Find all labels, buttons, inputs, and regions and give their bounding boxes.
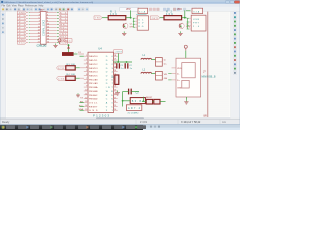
IC U4 right pin 3 bbox=[114, 63, 118, 65]
svg-text:VPP: VPP bbox=[126, 9, 131, 11]
IC U4 right pin 14 bbox=[114, 105, 118, 107]
svg-text:MINIUSB_B: MINIUSB_B bbox=[202, 76, 216, 79]
svg-text:X2 20MHz: X2 20MHz bbox=[128, 113, 139, 115]
svg-text:14: 14 bbox=[114, 109, 116, 111]
P1 right global label 3 bbox=[59, 17, 68, 20]
U1 left pin bbox=[133, 23, 135, 25]
svg-text:15: 15 bbox=[85, 109, 87, 111]
P1 left pin row 2 wire and pin bbox=[27, 15, 29, 17]
wire label to R1 bbox=[102, 17, 108, 19]
svg-text:VCC: VCC bbox=[19, 42, 26, 44]
svg-text:IN1: IN1 bbox=[96, 18, 102, 20]
svg-text:USB: USB bbox=[193, 19, 200, 21]
wire OUT1 to R2 bbox=[160, 17, 164, 19]
svg-text:11: 11 bbox=[85, 93, 87, 95]
resistor R3 bbox=[66, 66, 75, 70]
P1 left pin row 4 wire and pin bbox=[27, 21, 29, 23]
P1 left pin row 5 wire and pin bbox=[27, 24, 29, 26]
IC U4 right pin 9 bbox=[114, 86, 118, 88]
svg-text:GN: GN bbox=[164, 78, 168, 80]
P1 left pin row 9 wire and pin bbox=[27, 36, 29, 38]
IC U4 right pin 12 bbox=[114, 98, 118, 100]
svg-text:PB2/AA: PB2/AA bbox=[89, 86, 98, 89]
svg-text:16: 16 bbox=[114, 101, 116, 103]
svg-text:28: 28 bbox=[114, 55, 116, 57]
svg-text:10K: 10K bbox=[110, 12, 117, 16]
transistor Q1 bbox=[123, 23, 128, 28]
svg-text:SDA: SDA bbox=[79, 108, 84, 111]
svg-text:R3 10K: R3 10K bbox=[67, 64, 76, 66]
svg-text:mm: mm bbox=[222, 121, 226, 124]
svg-text:R4 10K: R4 10K bbox=[67, 74, 76, 76]
crystal X3 box bbox=[130, 98, 145, 104]
svg-text:P12303: P12303 bbox=[93, 113, 109, 117]
svg-text:VDD: VDD bbox=[177, 9, 182, 11]
svg-text:File Edit View Place Prefe: File Edit View Place Preferences Help bbox=[2, 4, 45, 7]
svg-text:OSC1: OSC1 bbox=[89, 103, 98, 105]
resistor R2 bbox=[164, 16, 182, 20]
P1 right pin row 7 wire and pin bbox=[46, 30, 57, 32]
P1 right pin row 6 wire and pin bbox=[46, 27, 57, 29]
IC U4 right pin 7 bbox=[114, 78, 118, 80]
svg-text:24: 24 bbox=[114, 70, 116, 72]
wire R4 to IC bbox=[75, 77, 80, 79]
P1 left pin row 11 wire and pin bbox=[27, 42, 29, 44]
svg-text:+3V3: +3V3 bbox=[115, 52, 123, 54]
U2 left pin bbox=[187, 28, 190, 30]
svg-text:PB0/A8: PB0/A8 bbox=[89, 78, 98, 81]
P1 left global label 11 bbox=[17, 41, 26, 44]
svg-text:NPN: NPN bbox=[186, 27, 191, 29]
sheet border line bbox=[207, 12, 209, 117]
small box X2 bbox=[192, 8, 203, 13]
svg-text:X1A: X1A bbox=[139, 10, 146, 13]
wire into crystal bbox=[123, 100, 131, 102]
P1 right global label 1 bbox=[59, 11, 68, 14]
global label VCC bbox=[64, 39, 73, 43]
ground below USB bbox=[185, 100, 187, 102]
svg-text:VDD: VDD bbox=[177, 68, 182, 70]
power label +3V3 box bbox=[114, 50, 122, 54]
global label IN1 bbox=[94, 16, 102, 20]
resistor R7 bbox=[154, 99, 160, 104]
ESD array block A bbox=[156, 58, 163, 67]
P1 right pin row 2 wire and pin bbox=[46, 15, 57, 17]
svg-text:PA0/D0: PA0/D0 bbox=[89, 55, 98, 58]
junction node1 bbox=[130, 17, 132, 19]
P1 right global label 6 bbox=[59, 26, 68, 29]
IC U4 left pin 14 bbox=[84, 105, 88, 107]
USB connector J2 outer body bbox=[176, 58, 201, 97]
svg-text:D-: D- bbox=[164, 59, 167, 61]
ESD array block B bbox=[156, 71, 163, 80]
P1 left global label 9 bbox=[17, 35, 26, 38]
svg-text:.1u: .1u bbox=[129, 68, 132, 70]
USB inner shape 2 bbox=[182, 80, 189, 88]
svg-text:3: 3 bbox=[86, 63, 87, 65]
P1 left pin row 10 wire and pin bbox=[27, 39, 29, 41]
wire node1 up bbox=[130, 10, 132, 17]
global label left B bbox=[57, 76, 66, 80]
USB inner shape 1 bbox=[182, 63, 195, 78]
vertical wire right of IC bbox=[122, 92, 124, 107]
wire R1node down to Q1 bbox=[121, 18, 123, 26]
P1 left global label 1 bbox=[17, 11, 26, 14]
IC U4 right pin 5 bbox=[114, 71, 118, 73]
svg-text:7: 7 bbox=[86, 78, 87, 80]
power symbol PWR1 bbox=[58, 39, 61, 42]
P1 right pin row 11 wire and pin bbox=[46, 42, 57, 44]
IC U4 left pin 3 bbox=[84, 63, 88, 65]
svg-text:2: 2 bbox=[86, 59, 87, 61]
svg-text:PB4/AC: PB4/AC bbox=[89, 94, 98, 97]
power arrow symbol bbox=[67, 46, 70, 49]
svg-text:17: 17 bbox=[114, 97, 116, 99]
P1 left pin row 8 wire and pin bbox=[27, 33, 29, 35]
junction at Q1 base bbox=[124, 26, 125, 27]
capacitor C2 bbox=[124, 63, 126, 68]
wires R6 R7 bbox=[142, 101, 146, 103]
small box JP1 bbox=[138, 8, 148, 13]
component box U2 bbox=[191, 15, 206, 31]
IC U4 left pin 4 bbox=[84, 67, 88, 69]
IC U4 body bbox=[88, 52, 114, 112]
svg-text:U1: U1 bbox=[138, 19, 144, 21]
svg-text:PB5/AD: PB5/AD bbox=[89, 98, 98, 101]
IC U4 left pin 8 bbox=[84, 82, 88, 84]
resistor R6 bbox=[146, 99, 152, 104]
P1 right pin row 1 wire and pin bbox=[46, 12, 57, 14]
svg-text:EESchema C:\kicad\share\demos: EESchema C:\kicad\share\demos\interf_u\i… bbox=[5, 1, 94, 4]
svg-text:PB3/AB: PB3/AB bbox=[89, 90, 98, 93]
P1 left global label 5 bbox=[17, 23, 26, 26]
svg-text:27: 27 bbox=[114, 59, 116, 61]
svg-text:GND: GND bbox=[177, 88, 182, 90]
IC U4 right pin 8 bbox=[114, 82, 118, 84]
P1 left pin row 1 wire and pin bbox=[27, 12, 29, 14]
svg-text:CONN_13X2: CONN_13X2 bbox=[37, 45, 48, 48]
svg-text:18: 18 bbox=[114, 93, 116, 95]
capacitor C3 bbox=[128, 89, 130, 95]
IC U4 left pin 5 bbox=[84, 71, 88, 73]
IC U4 right pin 11 bbox=[114, 94, 118, 96]
svg-text:14: 14 bbox=[85, 105, 87, 107]
IC U4 right pin 10 bbox=[114, 90, 118, 92]
P1 right pin row 10 wire and pin bbox=[46, 39, 57, 41]
svg-text:1: 1 bbox=[86, 55, 87, 57]
svg-text:3V: 3V bbox=[138, 23, 144, 25]
svg-text:PA5/D5: PA5/D5 bbox=[89, 75, 98, 78]
P1 left global label 3 bbox=[17, 17, 26, 20]
U1 left pin bbox=[133, 20, 135, 22]
svg-text:X 104,14 Y 58,42: X 104,14 Y 58,42 bbox=[181, 121, 201, 124]
P1 left pin row 3 wire and pin bbox=[27, 18, 29, 20]
IC U4 right pin 15 bbox=[114, 109, 118, 111]
svg-text:PA2/D2: PA2/D2 bbox=[89, 63, 98, 66]
IC U4 right pin 6 bbox=[114, 75, 118, 77]
svg-text:PB1/A9: PB1/A9 bbox=[89, 82, 98, 85]
U2 vertical wire bbox=[186, 18, 188, 29]
resistor R4 bbox=[66, 76, 75, 80]
svg-text:9: 9 bbox=[86, 86, 87, 88]
svg-text:CTS: CTS bbox=[58, 78, 65, 80]
P1 right global label 8 bbox=[59, 32, 68, 35]
P1 right global label 2 bbox=[59, 14, 68, 17]
U2 left pin bbox=[187, 17, 190, 19]
P1 left pin row 7 wire and pin bbox=[27, 30, 29, 32]
P1 right global label 7 bbox=[59, 29, 68, 32]
svg-text:OUT1: OUT1 bbox=[152, 18, 159, 20]
svg-text:15: 15 bbox=[114, 105, 116, 107]
svg-text:13: 13 bbox=[85, 101, 87, 103]
P1 right pin row 5 wire and pin bbox=[46, 24, 57, 26]
svg-text:X2A: X2A bbox=[193, 10, 200, 13]
global label left A bbox=[57, 66, 66, 70]
fuse F1 block bbox=[62, 52, 73, 55]
P1 left global label 8 bbox=[17, 32, 26, 35]
U2 left pin bbox=[187, 21, 190, 23]
P1 right global label 5 bbox=[59, 23, 68, 26]
IC U4 left pin 15 bbox=[84, 109, 88, 111]
wire node2 up bbox=[184, 10, 186, 17]
U2 left pin bbox=[187, 25, 190, 27]
IC U4 left pin 6 bbox=[84, 75, 88, 77]
svg-text:U4: U4 bbox=[98, 46, 102, 50]
P1 right pin row 8 wire and pin bbox=[46, 33, 57, 35]
resistor R5 vertical bbox=[115, 75, 119, 84]
svg-text:26: 26 bbox=[114, 63, 116, 65]
teal wire right bbox=[136, 13, 147, 15]
svg-text:PA1/D1: PA1/D1 bbox=[89, 59, 98, 62]
P1 left global label 10 bbox=[17, 38, 26, 41]
P1 left global label 4 bbox=[17, 20, 26, 23]
P1 right global label 4 bbox=[59, 20, 68, 23]
ground below Q2 bbox=[180, 31, 182, 33]
wire cap tops bbox=[114, 61, 133, 63]
svg-text:6: 6 bbox=[86, 74, 87, 76]
USB left pin stubs bbox=[172, 67, 177, 69]
P1 right pin row 3 wire and pin bbox=[46, 18, 57, 20]
svg-text:5: 5 bbox=[86, 70, 87, 72]
IC U4 left pin 10 bbox=[84, 90, 88, 92]
ground below Q1 bbox=[123, 31, 125, 33]
svg-text:12: 12 bbox=[85, 97, 87, 99]
svg-text:10: 10 bbox=[85, 90, 87, 92]
IC U4 left pin 12 bbox=[84, 98, 88, 100]
svg-text:20: 20 bbox=[114, 86, 116, 88]
wire R3 to IC bbox=[75, 67, 80, 69]
global label OUT1 bbox=[150, 16, 159, 20]
svg-text:.1u: .1u bbox=[121, 68, 124, 70]
wire vcc vertical bbox=[68, 44, 70, 52]
P1 left global label 6 bbox=[17, 26, 26, 29]
wire from fuse to IC bbox=[73, 53, 77, 55]
ground below R5 bbox=[117, 91, 119, 93]
box under crystal bbox=[126, 105, 141, 111]
IC U4 left pin 13 bbox=[84, 102, 88, 104]
gnd below connector bbox=[55, 44, 57, 46]
P1 right pin row 4 wire and pin bbox=[46, 21, 57, 23]
IC U4 left pin 7 bbox=[84, 78, 88, 80]
P1 right pin row 9 wire and pin bbox=[46, 36, 57, 38]
junction node2 bbox=[184, 17, 186, 19]
IC U4 left pin 11 bbox=[84, 94, 88, 96]
svg-text:PA4/D4: PA4/D4 bbox=[89, 71, 98, 74]
svg-text:PHY: PHY bbox=[193, 23, 200, 25]
power symbol above USB bbox=[184, 45, 187, 48]
svg-text:R6 R7: R6 R7 bbox=[146, 97, 153, 99]
svg-text:8: 8 bbox=[86, 82, 87, 84]
U1 left pin bbox=[133, 26, 135, 28]
U1 vertical wire bbox=[132, 18, 134, 27]
svg-text:PA3/D3: PA3/D3 bbox=[89, 67, 98, 70]
IC U4 right pin 2 bbox=[114, 59, 118, 61]
svg-text:CONN_13X2: CONN_13X2 bbox=[43, 19, 46, 36]
IC U4 left pin 9 bbox=[84, 86, 88, 88]
transistor Q2 bbox=[179, 23, 184, 28]
IC U4 right pin 4 bbox=[114, 67, 118, 69]
svg-text:GND: GND bbox=[89, 110, 98, 112]
component box U1 bbox=[137, 16, 148, 30]
IC U4 right pin 13 bbox=[114, 102, 118, 104]
svg-text:25: 25 bbox=[114, 66, 116, 68]
svg-text:Z 3,81: Z 3,81 bbox=[140, 121, 148, 124]
P1 right global label 9 bbox=[59, 35, 68, 38]
svg-text:Ready: Ready bbox=[2, 121, 10, 124]
capacitor C1 bbox=[116, 63, 118, 68]
connector P1 body bbox=[41, 11, 47, 44]
svg-text:VCC: VCC bbox=[65, 40, 71, 42]
IC U4 left pin 1 bbox=[84, 55, 88, 57]
IC U4 right pin 1 bbox=[114, 55, 118, 57]
P1 left pin row 6 wire and pin bbox=[27, 27, 29, 29]
junction at Q2 base bbox=[180, 26, 181, 27]
P1 right global label 10 bbox=[59, 38, 68, 41]
svg-text:RESET: RESET bbox=[89, 106, 98, 108]
P1 left global label 7 bbox=[17, 29, 26, 32]
svg-text:RG: RG bbox=[138, 26, 143, 28]
P1 right global label 11 bbox=[59, 41, 68, 44]
wire R1 to node bbox=[126, 17, 132, 19]
svg-text:DTR: DTR bbox=[58, 68, 65, 70]
svg-text:VCC: VCC bbox=[60, 42, 67, 44]
ground left of IC bbox=[77, 93, 79, 94]
svg-text:4: 4 bbox=[86, 66, 87, 68]
svg-text:D-: D- bbox=[177, 73, 180, 75]
resistor R1 bbox=[108, 16, 126, 20]
svg-text:19: 19 bbox=[114, 90, 116, 92]
P1 left global label 2 bbox=[17, 14, 26, 17]
wire USB to ground bbox=[185, 97, 187, 100]
U1 left pin bbox=[133, 17, 135, 19]
wires around C3 bbox=[123, 91, 129, 93]
svg-text:10K: 10K bbox=[166, 12, 173, 16]
wire power to USB bbox=[185, 51, 187, 59]
wire R2 to node2 bbox=[182, 17, 187, 19]
IC U4 left pin 2 bbox=[84, 59, 88, 61]
